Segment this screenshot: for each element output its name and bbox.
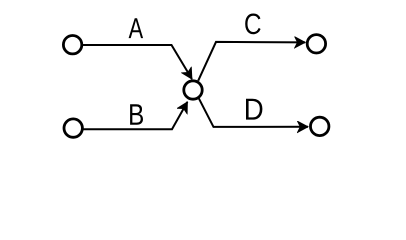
label B	[130, 104, 143, 124]
node 3 (central circle)	[184, 81, 202, 99]
node 5 (bottom-right circle)	[311, 117, 329, 135]
label A	[129, 18, 143, 38]
wire D (node 3 to node 5)	[199, 98, 308, 127]
node 4 (top-right circle)	[307, 35, 325, 53]
wire A (node 1 to node 3)	[82, 45, 192, 79]
wire C (node 3 to node 4)	[198, 42, 305, 81]
node 1 (top-left circle)	[63, 36, 81, 54]
node 2 (bottom-left circle)	[64, 119, 82, 137]
label C	[245, 13, 260, 34]
label D	[246, 99, 262, 120]
wire B (node 2 to node 3)	[83, 102, 188, 129]
